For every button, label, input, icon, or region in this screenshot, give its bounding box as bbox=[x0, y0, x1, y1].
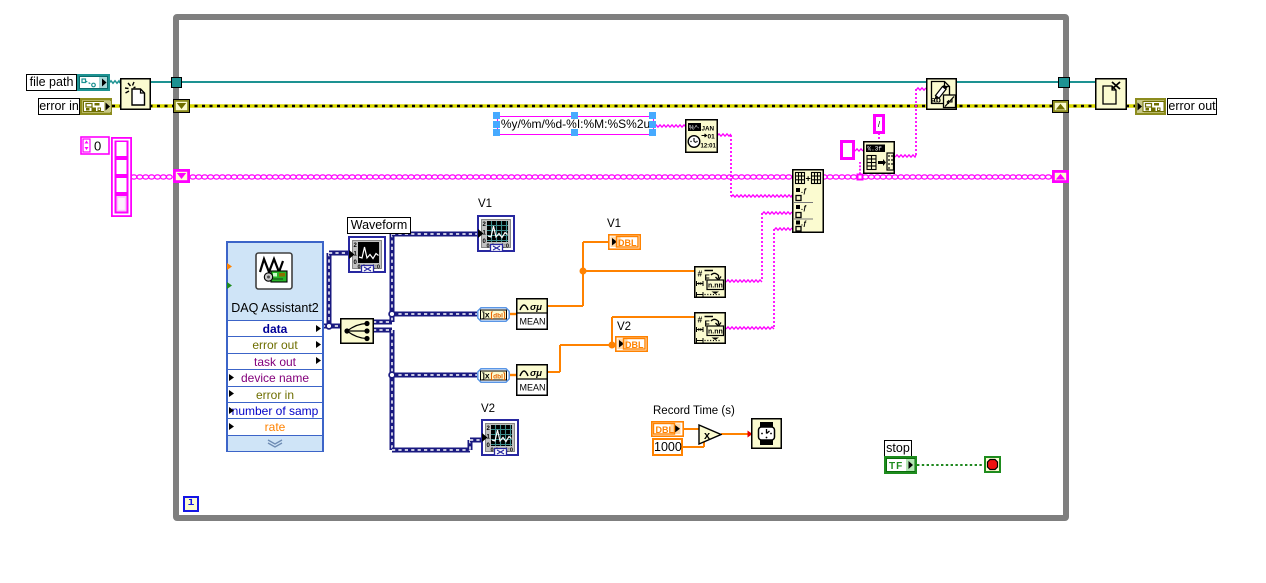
function: Convert from Dynamic Data 1 bbox=[477, 307, 510, 322]
indicator: V1 chart terminal bbox=[477, 215, 515, 252]
control: error in cluster bbox=[80, 98, 112, 115]
label: error in bbox=[38, 98, 80, 115]
svg-text:]x: ]x bbox=[482, 371, 490, 381]
wire: path wire across loop to Write icon and right tunnel bbox=[120, 81, 1059, 83]
shift register: error (left, down arrow) bbox=[173, 99, 190, 113]
svg-text:TF: TF bbox=[889, 461, 903, 472]
svg-text:12:01: 12:01 bbox=[701, 144, 717, 150]
function: Number To Fractional String 1 bbox=[694, 266, 726, 298]
svg-text:MEAN: MEAN bbox=[520, 383, 546, 393]
label: V1 (chart) bbox=[478, 198, 492, 210]
wire: string-array chain across loop (shift reg to Build Array to right shift reg) bbox=[190, 175, 196, 179]
function: multiply bbox=[698, 424, 722, 445]
wire: convert1 to MEAN1 bbox=[509, 313, 516, 315]
control: stop TF boolean bbox=[884, 456, 917, 474]
function: Write to Text File bbox=[926, 78, 957, 110]
wire: string-array chain from array control to left shift register bbox=[131, 175, 137, 179]
svg-text:σμ: σμ bbox=[530, 302, 542, 313]
loop condition terminal (stop sign) bbox=[984, 456, 1001, 473]
control: Record Time DBL bbox=[651, 421, 684, 437]
express VI: Statistics MEAN 2 bbox=[516, 364, 548, 396]
svg-text:[dbl]: [dbl] bbox=[491, 372, 506, 381]
svg-text:%.3f: %.3f bbox=[868, 146, 883, 153]
svg-text:MEAN: MEAN bbox=[520, 317, 546, 327]
indicator: V2 chart terminal bbox=[481, 419, 519, 456]
tunnel: file refnum (right) bbox=[1058, 77, 1070, 88]
wire: split out 1 to V1 chart / convert bbox=[373, 320, 392, 325]
svg-text:[dbl]: [dbl] bbox=[491, 311, 506, 320]
wire: path from right tunnel to Close File bbox=[1069, 81, 1098, 83]
selection handles bbox=[493, 112, 500, 119]
wire: spreadsheet string up to Write to Text File bbox=[895, 155, 916, 157]
svg-text:%^·: %^· bbox=[689, 124, 700, 131]
label: V2 (DBL) bbox=[617, 321, 631, 333]
control: file path (path control) bbox=[77, 74, 110, 91]
svg-text:n.nn: n.nn bbox=[708, 329, 723, 336]
while loop border bbox=[173, 14, 1069, 521]
function: Array To Spreadsheet String bbox=[863, 141, 895, 174]
svg-text:01: 01 bbox=[708, 134, 716, 141]
wire: error from right border to Close File to error out bbox=[1066, 104, 1138, 108]
iteration terminal i bbox=[183, 496, 199, 512]
svg-text:ab: ab bbox=[931, 95, 941, 105]
svg-text:x: x bbox=[704, 430, 711, 442]
wire: branch up to Waveform chart bbox=[327, 253, 332, 324]
tunnel: file refnum (left) bbox=[171, 77, 182, 88]
wire: stop TF to loop condition bbox=[917, 464, 984, 466]
label: file path bbox=[26, 74, 77, 91]
label: V1 (DBL) bbox=[607, 218, 621, 230]
array control: index box bbox=[80, 136, 110, 155]
label: Record Time (s) bbox=[653, 405, 735, 417]
wire: DAQ data out to Split Signals bbox=[322, 324, 340, 329]
function: Number To Fractional String 2 bbox=[694, 312, 726, 344]
function: Wait (ms) bbox=[751, 418, 782, 449]
wire: split out 2 to V2 chart / convert bbox=[373, 328, 392, 333]
constant: slash string bbox=[873, 114, 885, 134]
svg-text:.ƒ: .ƒ bbox=[801, 221, 807, 228]
svg-text:.ƒ: .ƒ bbox=[801, 205, 807, 212]
wire: multiply to Wait(ms) with coercion dot bbox=[721, 433, 751, 435]
wire: date format constant to Format Date/Time String bbox=[654, 125, 686, 127]
junction dots on dynamic wires bbox=[326, 323, 332, 329]
label: stop bbox=[884, 440, 912, 457]
shift register: string array (right, up arrow) bbox=[1052, 170, 1069, 183]
shift register: error (right, up arrow) bbox=[1052, 100, 1069, 113]
wire: slash constant down to Array To Spreadsheet String format input bbox=[878, 133, 880, 141]
label: V2 (chart) bbox=[481, 403, 495, 415]
wire: convert2 to MEAN2 bbox=[509, 374, 516, 376]
function: Convert from Dynamic Data 2 bbox=[477, 368, 510, 383]
svg-text:n.nn: n.nn bbox=[708, 283, 723, 290]
indicator: Waveform chart terminal bbox=[348, 236, 386, 273]
function: Format Date/Time String bbox=[685, 119, 718, 153]
svg-text:#: # bbox=[698, 315, 703, 325]
express VI: DAQ Assistant2 bbox=[226, 241, 324, 452]
wire: V2 string to Build Array input 4 bbox=[726, 327, 774, 329]
constant: date/time format string (selected) bbox=[497, 116, 654, 135]
indicator: V2 DBL bbox=[615, 336, 648, 352]
indicator: error out cluster bbox=[1135, 98, 1166, 115]
express VI: Statistics MEAN 1 bbox=[516, 298, 548, 330]
wire: Record Time DBL to multiply bbox=[683, 428, 699, 430]
svg-text:0: 0 bbox=[94, 139, 101, 154]
wire: file path squiggle to open icon bbox=[109, 81, 120, 83]
wire: MEAN2 out to V2 DBL and NumToFracString2 bbox=[548, 371, 560, 373]
function: Close File bbox=[1095, 78, 1127, 110]
label: error out bbox=[1167, 98, 1217, 115]
function: Split Signals bbox=[340, 318, 374, 344]
indicator: V1 DBL bbox=[608, 234, 641, 250]
function: Open/Create/Replace File bbox=[120, 78, 151, 110]
function: Build Array bbox=[792, 169, 824, 233]
array control: element column (string array) bbox=[110, 136, 133, 218]
svg-text:.ƒ: .ƒ bbox=[801, 188, 807, 195]
svg-text:]x: ]x bbox=[482, 310, 490, 320]
constant: 1000 bbox=[652, 438, 683, 456]
wire: V1 string to Build Array input 3 bbox=[726, 280, 762, 282]
svg-text:JAN: JAN bbox=[702, 126, 715, 133]
constant: empty string (delimiter) bbox=[840, 140, 855, 160]
wire: delimiter constant to Array To Spreadsheet String bbox=[855, 149, 863, 151]
svg-text:#: # bbox=[698, 269, 703, 279]
shift register: string array (left, down arrow) bbox=[173, 169, 190, 183]
wire: Format Date/Time output down to Build Array input 2 bbox=[717, 134, 731, 136]
wire: 1000 to multiply bbox=[683, 446, 704, 448]
label: Waveform bbox=[347, 217, 411, 234]
wire: error in to loop across to right bbox=[112, 104, 1055, 108]
wire: MEAN1 out to V1 DBL and NumToFracString1 bbox=[548, 305, 583, 307]
wire: chain branch up to Array To Spreadsheet String bbox=[859, 161, 861, 174]
svg-text:+: + bbox=[806, 174, 811, 184]
svg-text:σμ: σμ bbox=[530, 368, 542, 379]
